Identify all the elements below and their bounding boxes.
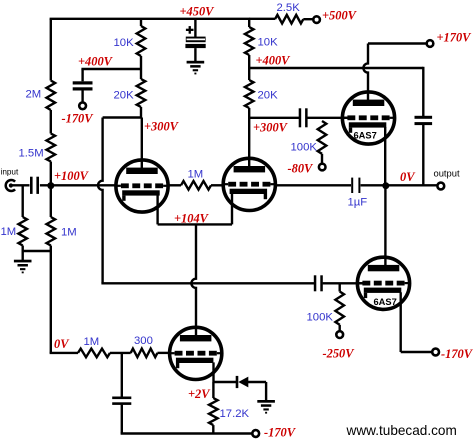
input jack J1 [6, 180, 15, 191]
terminal +170V [427, 40, 434, 47]
wire 20K to +300V node [140, 107, 142, 118]
svg-text:-170V: -170V [264, 425, 297, 439]
svg-text:-250V: -250V [323, 347, 356, 361]
terminal -170V bottom [252, 430, 259, 437]
triode T1 left input tube [116, 160, 168, 212]
wire bootstrap cap to output line [422, 125, 424, 185]
wire T1 grid to 1M [168, 184, 181, 186]
wire 10K right to +400V [248, 55, 250, 80]
wire +450V top rail [50, 18, 251, 20]
node +100V junction dot [47, 182, 54, 189]
wire T4 plate riser with hop [363, 44, 368, 101]
svg-text:1M: 1M [61, 226, 77, 238]
svg-text:+104V: +104V [174, 212, 210, 226]
capacitor C4 bootstrap [415, 116, 433, 119]
wire 100K to -80V terminal [321, 154, 323, 164]
ground input [14, 260, 32, 263]
terminal +500V [313, 16, 320, 23]
svg-text:17.2K: 17.2K [220, 408, 250, 420]
wire T3 cathode drop [212, 362, 214, 382]
wire 1M to 300 [110, 352, 131, 354]
wire 1.5M to +100V node [50, 162, 52, 186]
svg-text:-170V: -170V [62, 111, 95, 125]
svg-text:2M: 2M [26, 89, 42, 101]
wire feedback vertical with hop [98, 118, 103, 284]
svg-text:0V: 0V [400, 170, 416, 184]
svg-text:input: input [1, 167, 19, 176]
triode U2 lower 6AS7 [357, 257, 409, 309]
wire C6 to output junction [361, 184, 438, 186]
svg-text:20K: 20K [114, 90, 135, 102]
resistor R1 2M [47, 81, 56, 111]
svg-text:1µF: 1µF [348, 197, 368, 209]
triode T3 cathode follower [170, 327, 222, 379]
wire 10K to 20K [140, 56, 142, 79]
wire left branch from rail to 2M [50, 19, 52, 81]
wire C2 to -170V terminal [81, 90, 83, 102]
wire cathode bus [158, 223, 232, 225]
resistor R11 1M interstage [181, 181, 211, 190]
svg-text:300: 300 [134, 335, 153, 347]
svg-text:+300V: +300V [253, 121, 289, 135]
wire +400V rail right [249, 67, 423, 69]
svg-text:output: output [434, 168, 460, 179]
wire +300V to C5 [249, 117, 299, 119]
wire output junction to T5 plate [384, 185, 386, 265]
svg-text:6AS7: 6AS7 [354, 131, 377, 141]
svg-text:-80V: -80V [288, 162, 315, 176]
wire input jack to C1 [11, 184, 30, 186]
wire 1M to T2 grid [211, 184, 223, 186]
wire 2.5K to +500V terminal [303, 18, 313, 20]
wire 1M shunt bottom [22, 246, 24, 261]
wire C5 to T4 grid [307, 117, 347, 119]
wire T5 cathode drop [400, 292, 402, 352]
resistor R2 1.5M [47, 134, 56, 162]
capacitor C3 electrolytic [186, 37, 206, 43]
wire diode to ground corner [248, 381, 266, 383]
svg-text:100K: 100K [291, 141, 318, 153]
wire feedback horizontal at +300V [103, 116, 141, 118]
wire between 2M and 1.5M [50, 110, 52, 134]
resistor R4 1M grid return [47, 217, 56, 246]
diode D1 [236, 376, 239, 388]
wire C8 to bottom wire [121, 405, 123, 434]
wire junction drop to C8 [121, 353, 123, 397]
wire T5 cathode to -170V [401, 351, 433, 353]
svg-text:+2V: +2V [188, 387, 211, 401]
resistor R8 20K right [245, 80, 254, 108]
wire +400V left stub [81, 68, 141, 70]
terminal output [437, 183, 444, 190]
svg-text:1M: 1M [1, 226, 17, 238]
resistor R10 100K upper [318, 121, 327, 154]
wire +400V cap drop [81, 69, 83, 81]
capacitor C5 coupling [299, 108, 302, 127]
wire input to 1M shunt [22, 185, 24, 217]
wire 0V corner [50, 352, 78, 354]
svg-text:2.5K: 2.5K [277, 2, 301, 14]
wire T4 cathode to output junction [384, 127, 386, 185]
node output junction dot [382, 182, 389, 189]
terminal -170V right [432, 349, 439, 356]
resistor R12 100K lower [335, 292, 344, 325]
wire T2 grid to C6 [276, 184, 352, 186]
svg-text:1.5M: 1.5M [19, 148, 44, 160]
svg-text:www.tubecad.com: www.tubecad.com [346, 423, 457, 438]
svg-text:+400V: +400V [256, 53, 292, 67]
wire T3 cathode to diode [214, 381, 237, 383]
wire rail to 10K [140, 19, 142, 26]
wire rail to electrolytic [194, 19, 196, 37]
terminal -170V upper left [79, 102, 86, 109]
wire +100V node to 0V corner [50, 185, 52, 217]
capacitor C3 electrolytic plus sign [186, 29, 194, 31]
resistor R9 2.5K [275, 15, 303, 24]
resistor R7 10K right [245, 27, 254, 55]
triode U1 upper 6AS7 [342, 92, 394, 144]
wire T2 cathode drop [231, 193, 233, 224]
wire rail corner into right branch [248, 19, 250, 27]
wire bottom -170V run [121, 432, 253, 434]
capacitor C8 bypass [112, 397, 131, 400]
wire 17.2K stubs [212, 382, 214, 398]
resistor R14 300 [131, 349, 158, 358]
resistor R13 1M bottom [78, 349, 110, 358]
svg-text:20K: 20K [258, 90, 279, 102]
svg-text:6AS7: 6AS7 [374, 297, 397, 307]
ground electrolytic [187, 61, 205, 64]
wire +170V horizontal [368, 42, 427, 44]
capacitor C2 decoupling [73, 81, 93, 84]
triode T2 second tube [223, 158, 275, 210]
wire feedback corner to coupling cap [101, 282, 314, 284]
wire bootstrap drop [422, 67, 424, 116]
wire T1 cathode drop [156, 195, 158, 224]
wire 20K to T2 plate [248, 108, 250, 166]
ground diode [257, 400, 275, 403]
capacitor C6 1uF [351, 178, 353, 193]
resistor R3 1M input shunt [18, 217, 27, 246]
terminal -80V [319, 164, 326, 171]
svg-text:+400V: +400V [78, 54, 114, 68]
svg-text:+500V: +500V [322, 8, 358, 22]
svg-text:10K: 10K [114, 37, 135, 49]
wire electrolytic to ground [194, 48, 196, 61]
svg-text:+170V: +170V [437, 30, 473, 44]
svg-text:1M: 1M [188, 169, 204, 181]
svg-text:10K: 10K [258, 37, 279, 49]
terminal -250V [336, 331, 343, 338]
resistor R15 17.2K [209, 398, 218, 425]
resistor R6 20K left [137, 79, 146, 107]
wire rail to 2.5K [249, 18, 275, 20]
resistor R5 10K left [137, 26, 146, 56]
wire C1 to grid of T1 [40, 184, 116, 186]
capacitor C7 coupling [314, 275, 317, 291]
svg-text:1M: 1M [84, 336, 100, 348]
svg-text:100K: 100K [307, 312, 334, 324]
svg-text:0V: 0V [54, 337, 70, 351]
wire C7 to T5 grid [323, 282, 363, 284]
wire bus to T3 plate with hop [191, 224, 196, 335]
svg-text:+100V: +100V [54, 169, 90, 183]
svg-text:+300V: +300V [144, 120, 180, 134]
wire joining 1M bottoms [23, 250, 51, 252]
capacitor C1 input coupling [30, 177, 33, 194]
wire +300V to T1 plate [141, 118, 143, 169]
wire 100K lower stub [339, 283, 341, 291]
svg-text:-170V: -170V [441, 347, 474, 361]
svg-text:+450V: +450V [180, 4, 216, 18]
wire 300 to T3 grid [157, 352, 169, 354]
